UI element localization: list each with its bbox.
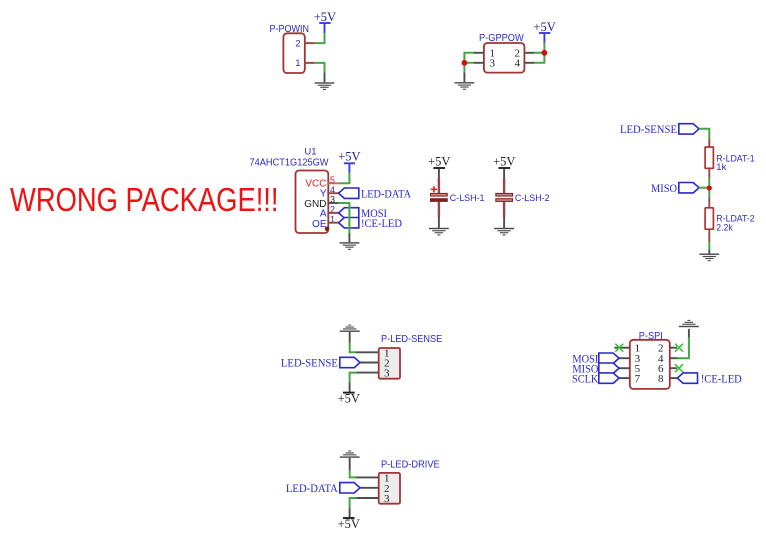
wire U1 pin 5 to +5V: [339, 173, 350, 184]
net flag LED-DATA at U1 pin 4: [339, 188, 412, 200]
svg-text:LED-SENSE: LED-SENSE: [281, 358, 338, 370]
capacitor C-LSH-1 polarity plus sign: [431, 186, 437, 192]
svg-text:+5V: +5V: [428, 155, 450, 169]
svg-text:U1: U1: [304, 147, 316, 158]
capacitor C-LSH-1 bottom lead: [438, 202, 440, 217]
wire P-LED-DRIVE pin 3 to +5V: [350, 498, 357, 509]
connector P-LED-SENSE body: [379, 348, 400, 379]
svg-text:LED-DATA: LED-DATA: [361, 188, 412, 200]
ground symbol at P-GPPOW: [455, 82, 475, 90]
P-LED-DRIVE pin 3 stub: [356, 497, 379, 499]
wire +5V to P-GPPOW pin 2: [534, 42, 544, 53]
P-SPI pin 3 stub: [614, 357, 629, 359]
svg-text:P-LED-SENSE: P-LED-SENSE: [381, 334, 443, 345]
wire +5V stem at P-LED-SENSE: [349, 383, 351, 392]
no-connect X at P-SPI pin 1: [615, 344, 623, 352]
U1 pin 3 stub (GND): [328, 202, 339, 204]
svg-text:+5V: +5V: [533, 20, 555, 34]
svg-text:+5V: +5V: [314, 10, 336, 24]
wire MISO flag to junction: [699, 187, 709, 189]
connector P-SPI body: [630, 340, 670, 389]
net flag MISO at P-SPI pin 5: [572, 363, 619, 375]
svg-text:LED-SENSE: LED-SENSE: [620, 124, 677, 136]
net flag LED-DATA at P-LED-DRIVE pin 2: [286, 483, 360, 495]
svg-text:1k: 1k: [716, 162, 726, 173]
wire +5V stem at C-LSH-1: [438, 169, 440, 179]
resistor R-LDAT-1 body: [705, 147, 713, 168]
buffer U1 74AHCT1G125GW body: [296, 171, 329, 234]
wire +5V stem to P-POWIN pin 2 (blue part): [324, 23, 326, 34]
net flag MISO at divider: [651, 183, 699, 195]
net flag MOSI at P-SPI pin 3: [572, 353, 619, 365]
ground symbol at P-LED-SENSE: [340, 325, 360, 332]
ground symbol at C-LSH-2: [494, 228, 514, 236]
svg-text:1: 1: [295, 58, 300, 69]
svg-text:3: 3: [384, 368, 390, 380]
P-SPI pin 4 stub: [670, 357, 678, 359]
net flag !CE-LED at U1 pin 1: [339, 218, 402, 230]
wire ground stem at P-LED-DRIVE: [349, 458, 351, 471]
junction at P-GPPOW pins 1-3: [462, 60, 468, 66]
P-LED-SENSE pin 2 stub: [356, 362, 379, 364]
wire ground to P-LED-DRIVE pin 1: [350, 470, 357, 477]
connector P-GPPOW body: [484, 43, 525, 73]
capacitor C-LSH-1 top lead: [438, 178, 440, 193]
wire ground stem at C-LSH-2: [503, 217, 505, 228]
P-LED-DRIVE pin 1 stub: [356, 476, 379, 478]
wire ground to P-LED-SENSE pin 1: [350, 342, 357, 352]
wire junction down to R-LDAT-2: [708, 188, 710, 198]
power symbol +5V below P-LED-DRIVE: [338, 517, 360, 531]
P-SPI pin 2 stub: [670, 347, 677, 349]
wire +5V stem at C-LSH-2: [503, 169, 505, 179]
net flag MOSI at U1 pin 2: [339, 208, 388, 220]
wire U1 pin 3 (GND) to ground: [339, 203, 350, 234]
wire P-GPPOW pin 4 up to pin 2 net: [534, 53, 544, 63]
P-SPI pin 8 stub: [670, 377, 678, 379]
connector P-POWIN body: [283, 33, 304, 73]
resistor R-LDAT-2 body: [705, 208, 713, 229]
resistor R-LDAT-1 top lead: [708, 139, 710, 147]
svg-text:3: 3: [384, 493, 390, 505]
connector P-LED-DRIVE body: [379, 473, 400, 504]
P-SPI pin 6 stub: [670, 367, 677, 369]
resistor R-LDAT-1 bottom lead: [708, 169, 710, 179]
svg-text:74AHCT1G125GW: 74AHCT1G125GW: [250, 158, 330, 169]
wire P-POWIN pin 2 to +5V: [315, 33, 325, 43]
resistor R-LDAT-2 bottom lead: [708, 229, 710, 242]
no-connect X at P-SPI pin 2: [675, 344, 683, 352]
capacitor C-LSH-2 top lead: [503, 178, 505, 193]
svg-text:3: 3: [490, 58, 496, 70]
capacitor C-LSH-2 bottom lead: [503, 202, 505, 217]
svg-text:2.2k: 2.2k: [716, 223, 733, 234]
power symbol +5V at P-GPPOW: [533, 20, 555, 34]
wire P-LED-SENSE pin 3 to +5V: [350, 373, 357, 384]
net flag LED-SENSE at P-LED-SENSE pin 2: [281, 357, 360, 369]
svg-text:C-LSH-1: C-LSH-1: [450, 193, 485, 204]
ground symbol at C-LSH-1: [429, 228, 449, 236]
P-SPI pin 7 stub: [614, 377, 629, 379]
capacitor C-LSH-1 top plate: [431, 193, 448, 196]
wire LED-SENSE flag to R-LDAT-1: [699, 129, 709, 140]
wire +5V stem at P-LED-DRIVE: [349, 509, 351, 518]
wire +5V stem at U1 (blue part): [348, 163, 350, 173]
P-GPPOW pin 3 stub: [474, 62, 484, 64]
P-POWIN pin 2 stub: [304, 42, 315, 44]
wire P-GPPOW pin 1 down to pin 3 net: [464, 53, 474, 63]
power symbol +5V at U1: [338, 149, 360, 163]
wire ground stem at P-GPPOW: [463, 73, 465, 82]
P-GPPOW pin 1 stub: [474, 52, 484, 54]
svg-text:SCLK: SCLK: [572, 373, 599, 385]
ground symbol at P-SPI: [679, 320, 699, 327]
wire ground stem at P-POWIN: [324, 73, 326, 83]
net flag LED-SENSE at divider: [620, 124, 699, 136]
svg-text:2: 2: [295, 38, 300, 49]
P-GPPOW pin 4 stub: [524, 62, 534, 64]
P-POWIN pin 1 stub: [304, 62, 315, 64]
wire P-POWIN pin 1 to ground: [315, 63, 325, 73]
ground symbol at P-POWIN: [315, 82, 335, 90]
P-LED-SENSE pin 1 stub: [356, 351, 379, 353]
power symbol +5V at P-POWIN: [314, 10, 336, 24]
svg-text:!CE-LED: !CE-LED: [701, 373, 742, 385]
net flag !CE-LED at P-SPI pin 8: [677, 373, 742, 385]
U1 pin 4 stub (Y): [328, 192, 339, 194]
capacitor C-LSH-1 bottom plate: [431, 199, 448, 202]
ground symbol at U1: [340, 242, 360, 250]
wire ground stem at U1: [348, 233, 350, 242]
svg-text:LED-DATA: LED-DATA: [286, 483, 339, 495]
wire ground stem at divider: [708, 250, 710, 254]
junction at P-GPPOW pins 2-4: [542, 50, 548, 56]
wire R-LDAT-1 to junction: [708, 178, 710, 188]
svg-text:+5V: +5V: [338, 149, 360, 163]
wire ground stem at P-LED-SENSE: [349, 332, 351, 343]
power symbol +5V at C-LSH-1: [428, 155, 450, 169]
no-connect X at P-SPI pin 6: [675, 364, 683, 372]
svg-text:+5V: +5V: [493, 155, 515, 169]
power symbol +5V below P-LED-SENSE: [338, 391, 360, 405]
wire ground stem at P-SPI: [688, 329, 690, 338]
wire P-GPPOW pin 3 to ground: [464, 63, 474, 73]
P-LED-DRIVE pin 2 stub: [356, 487, 379, 489]
wire ground stem at C-LSH-1: [438, 217, 440, 228]
svg-text:4: 4: [515, 58, 521, 70]
U1 pin 2 stub (A): [328, 212, 339, 214]
P-LED-SENSE pin 3 stub: [356, 372, 379, 374]
svg-text:!CE-LED: !CE-LED: [361, 218, 402, 230]
capacitor C-LSH-2 bottom plate: [496, 199, 513, 202]
wire R-LDAT-2 to ground: [708, 242, 710, 251]
svg-text:7: 7: [635, 373, 641, 385]
wire +5V stem at P-GPPOW (blue part): [543, 33, 545, 43]
svg-text:C-LSH-2: C-LSH-2: [515, 193, 550, 204]
svg-text:WRONG PACKAGE!!!: WRONG PACKAGE!!!: [10, 181, 279, 218]
junction at divider node MISO: [707, 185, 712, 190]
net flag SCLK at P-SPI pin 7: [572, 373, 619, 385]
U1 pin 1 stub (OE): [328, 222, 339, 224]
wire ground to P-SPI pin 4: [677, 337, 689, 358]
svg-text:8: 8: [658, 373, 664, 385]
ground symbol at P-LED-DRIVE: [340, 451, 360, 458]
svg-text:P-LED-DRIVE: P-LED-DRIVE: [381, 459, 440, 470]
svg-text:MISO: MISO: [651, 183, 677, 195]
P-GPPOW pin 2 stub: [524, 52, 534, 54]
U1 pin 5 stub (VCC): [328, 182, 339, 184]
resistor R-LDAT-2 top lead: [708, 198, 710, 209]
svg-text:OE: OE: [312, 219, 327, 230]
capacitor C-LSH-2 top plate: [496, 193, 513, 196]
P-SPI pin 5 stub: [614, 367, 629, 369]
P-SPI pin 1 stub: [614, 347, 629, 349]
U1 pin-1 marker dot: [325, 227, 329, 231]
power symbol +5V at C-LSH-2: [493, 155, 515, 169]
ground symbol at divider: [699, 254, 719, 262]
